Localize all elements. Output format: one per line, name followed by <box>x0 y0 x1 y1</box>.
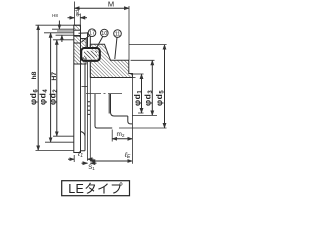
bolt hole band bottom thick <box>74 35 81 37</box>
S1 dimension arrows <box>82 162 88 164</box>
plate bore top edge <box>74 63 81 65</box>
svg-text:10: 10 <box>101 31 107 37</box>
boss lower hatched band <box>74 37 81 44</box>
plate-side retainer block above element <box>81 39 87 48</box>
svg-text:H7: H7 <box>51 72 58 81</box>
right hub face vertical long <box>131 74 133 164</box>
svg-text:h8: h8 <box>31 71 38 79</box>
svg-text:LEタイプ: LEタイプ <box>68 182 123 196</box>
bore top edge <box>90 77 132 79</box>
retainer block outline <box>81 39 87 48</box>
svg-text:M: M <box>108 0 114 9</box>
phi d5 dimension <box>119 127 167 129</box>
svg-text:11: 11 <box>115 32 121 38</box>
M dimension <box>74 2 76 26</box>
phi d4 dimension <box>44 32 74 34</box>
boss top edge <box>74 24 81 26</box>
svg-text:17: 17 <box>89 31 95 37</box>
lip outline <box>81 58 87 64</box>
left flange outline <box>74 25 81 152</box>
svg-text:ℓ1: ℓ1 <box>77 151 83 159</box>
plate hatch top edge <box>74 42 81 44</box>
ext line rim top right <box>129 44 167 46</box>
boss top hatched <box>74 25 81 30</box>
short line left of gap <box>82 85 88 87</box>
balloon 11 <box>114 30 122 38</box>
svg-text:m2: m2 <box>117 131 125 138</box>
lE dimension <box>90 160 132 162</box>
phi d3 dimension <box>131 59 155 61</box>
svg-text:φd5: φd5 <box>154 90 166 106</box>
svg-text:φd7: φd7 <box>75 7 81 17</box>
LE type box <box>62 181 130 196</box>
small H8 dimension arrows <box>52 28 74 30</box>
svg-text:φd2: φd2 <box>48 89 60 105</box>
svg-text:φd3: φd3 <box>142 90 154 106</box>
phi d6 dimension <box>36 24 75 26</box>
bolt hole band top <box>74 29 81 31</box>
svg-text:ℓE: ℓE <box>124 152 131 160</box>
element inner hatched <box>84 51 97 58</box>
element rounded thick outline <box>81 48 100 61</box>
ladder rungs in gap <box>88 102 91 115</box>
balloon 10 <box>101 29 109 37</box>
phi d2 dimension <box>53 39 74 41</box>
right hub upper section hatched polygon <box>90 44 132 77</box>
l1 dimension <box>73 155 75 162</box>
svg-text:H8: H8 <box>52 13 58 18</box>
plate lower flare fillet <box>81 65 86 151</box>
balloon 17 <box>88 29 96 37</box>
gap bolt verticals above element <box>88 33 91 49</box>
m2 dimension <box>111 130 113 142</box>
gap S1 verticals <box>88 62 91 161</box>
ext stub bore top right <box>131 76 136 78</box>
right hub outline upper <box>90 44 132 77</box>
lower external profile right hub <box>95 94 112 128</box>
phi d7 dimension <box>79 14 81 26</box>
centerline <box>86 93 122 95</box>
phi d1 dimension <box>131 73 144 75</box>
lip under element hatched <box>81 58 87 64</box>
left flange hub plate upper section hatched <box>74 37 81 65</box>
svg-text:S1: S1 <box>88 165 95 171</box>
